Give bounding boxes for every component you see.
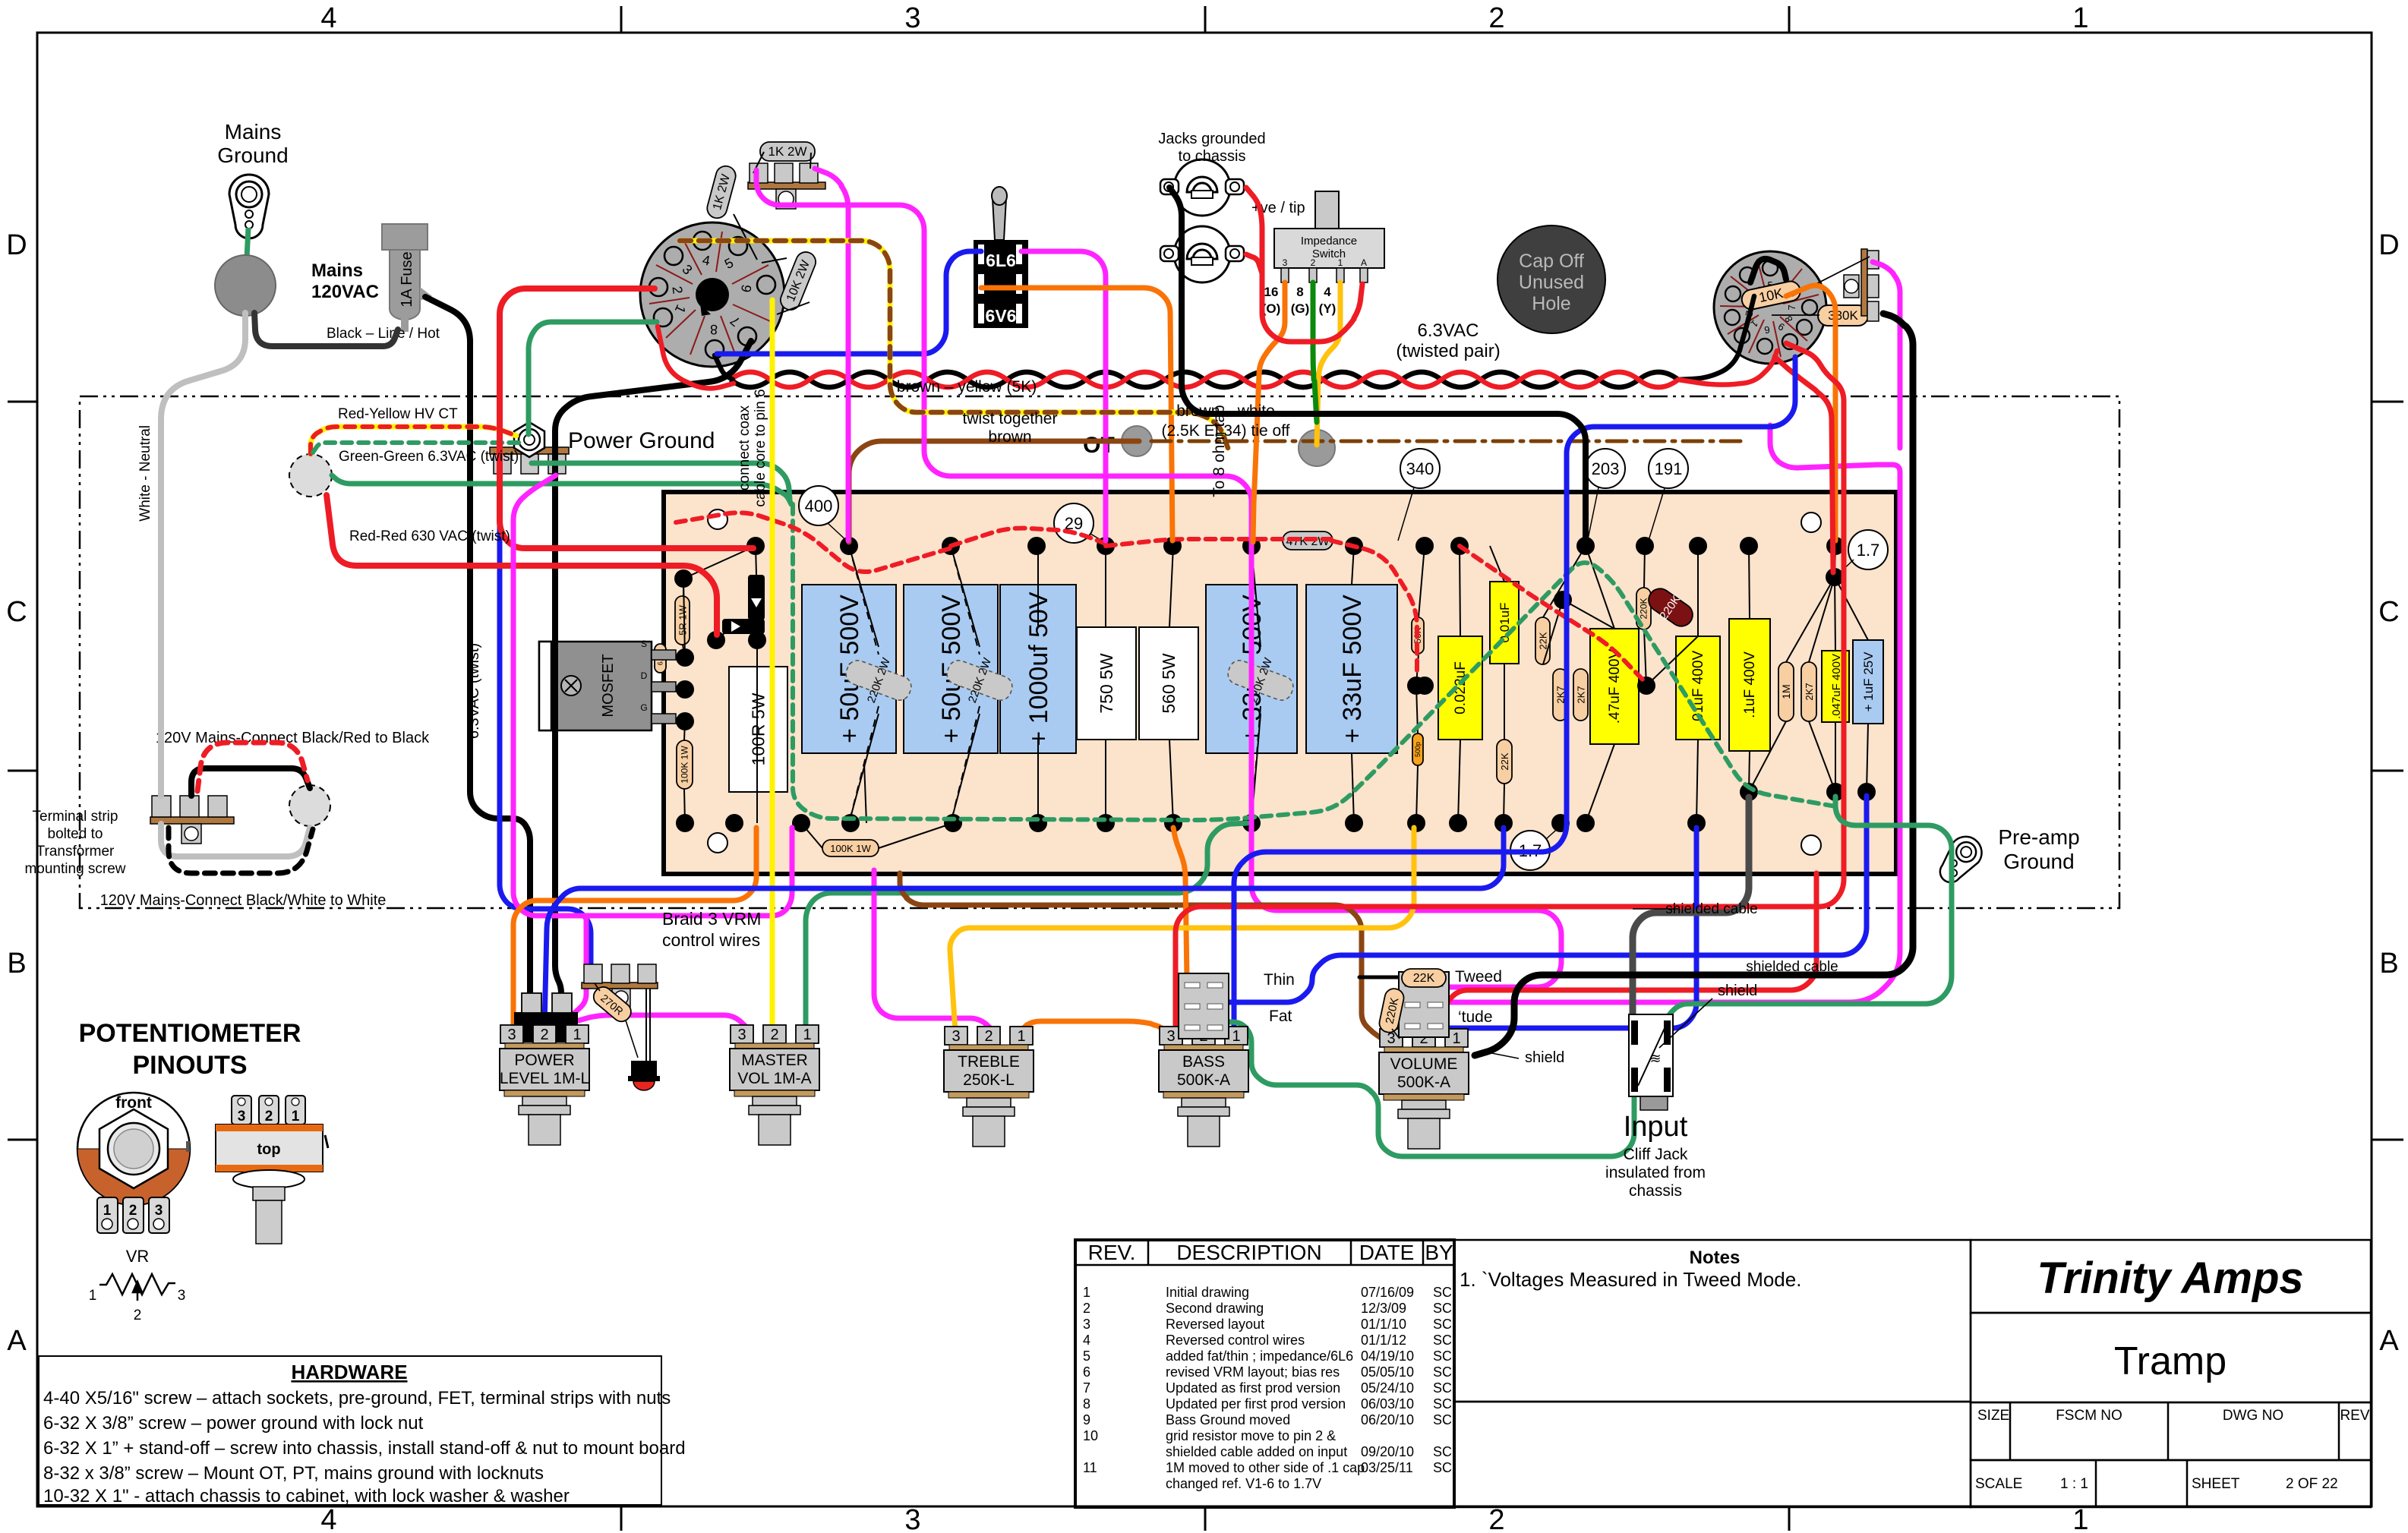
wire: orange treble-bass [1021,1021,1172,1039]
wire: brown OT primary [849,441,1139,542]
wire: orange noval-board [1786,285,1835,541]
svg-text:400: 400 [805,497,833,516]
svg-text:1: 1 [1017,1028,1025,1045]
svg-text:1. `Voltages Measured in Tweed: 1. `Voltages Measured in Tweed Mode. [1460,1268,1801,1291]
wire: orange VRM to PL lug3 [513,828,756,1033]
wire: red HT pin2 [500,289,753,548]
svg-text:Braid 3 VRM: Braid 3 VRM [662,909,761,929]
wire: red to volume tude [1444,873,1816,1019]
svg-text:1: 1 [1232,1028,1240,1045]
noval tube socket V1 12AX7 [1714,251,1826,364]
svg-text:BASS: BASS [1182,1053,1225,1071]
svg-text:100K 1W: 100K 1W [680,746,690,784]
svg-text:MASTER: MASTER [741,1052,808,1069]
svg-text:11: 11 [1083,1460,1097,1475]
svg-text:220K: 220K [1639,598,1649,619]
wire: magenta VRM bus [513,475,792,916]
svg-text:top: top [257,1141,280,1158]
svg-text:bolted to: bolted to [48,826,103,842]
wire: black fuse to power level pot [425,297,530,998]
svg-text:7: 7 [1786,304,1797,310]
svg-text:SC: SC [1433,1380,1452,1396]
svg-text:330K: 330K [1828,308,1858,323]
turrets [674,537,1876,832]
wire: green master to board [806,823,1247,1027]
electrolytic caps (blue) [802,585,1397,753]
component leads [676,546,1868,848]
svg-text:.047uF 400V: .047uF 400V [1830,654,1843,719]
svg-text:.47uF 400V: .47uF 400V [1607,649,1623,724]
svg-text:4: 4 [320,2,336,34]
octal tube socket V2 6L6 [640,222,784,367]
wire: red noval-board dot [1775,357,1833,573]
330K resistor [1818,305,1868,326]
svg-text:PINOUTS: PINOUTS [132,1051,247,1080]
svg-text:shielded cable: shielded cable [1665,901,1757,917]
svg-text:VR: VR [126,1247,150,1266]
wire: magenta to treble lug2 [874,870,994,1039]
svg-text:9: 9 [1083,1412,1090,1427]
svg-text:6-32 X 1” + stand-off – screw: 6-32 X 1” + stand-off – screw into chass… [43,1438,686,1459]
svg-text:1.7: 1.7 [1857,541,1880,560]
svg-text:Terminal strip: Terminal strip [33,809,118,825]
mode toggle switch 6L6/6V6 [974,187,1028,328]
svg-text:Trinity Amps: Trinity Amps [2037,1254,2303,1303]
svg-text:120VAC: 120VAC [311,282,379,302]
turret board [664,492,1896,874]
svg-text:A: A [1361,257,1367,268]
wire: magenta strip loop to volume [756,170,1561,987]
svg-text:250K-L: 250K-L [963,1071,1015,1089]
svg-text:Mains: Mains [311,260,363,281]
svg-text:100K 1W: 100K 1W [830,843,871,854]
svg-text:Hole: Hole [1532,293,1570,314]
svg-text:SC: SC [1433,1285,1452,1300]
svg-text:C: C [6,596,27,628]
svg-text:D: D [6,229,27,261]
input jack [1629,1014,1673,1110]
svg-text:.1uF 400V: .1uF 400V [1742,651,1758,718]
wire: black mains hot to fuse [254,313,398,346]
svg-text:6L6: 6L6 [986,251,1016,270]
svg-text:SC: SC [1433,1348,1452,1364]
svg-text:1M moved to other side of .1 c: 1M moved to other side of .1 cap [1166,1460,1365,1475]
svg-text:grid resistor move to pin 2 &: grid resistor move to pin 2 & [1166,1428,1336,1443]
wire: gold treble-board [950,828,1414,1039]
mains terminal strip [150,796,234,844]
wire: magenta strip-board [815,169,848,541]
svg-text:4: 4 [1324,285,1331,299]
svg-text:Thin: Thin [1264,971,1295,989]
svg-text:Black – Line / Hot: Black – Line / Hot [327,326,440,342]
svg-text:3: 3 [178,1288,186,1304]
pilot LED assembly [582,964,660,1090]
svg-text:A: A [7,1325,27,1357]
svg-text:SHEET: SHEET [2192,1476,2240,1492]
input terminal strip [1844,249,1879,321]
47K 2W gray pill [1283,532,1333,550]
svg-text:3: 3 [737,1027,746,1043]
terminal strip with 1K 2W bias resistors [705,142,825,314]
wire: 6.3VAC twisted pair [731,372,1678,387]
hardware note box [39,1356,661,1505]
svg-text:Transformer: Transformer [36,844,115,860]
svg-text:REV: REV [2340,1408,2369,1424]
svg-text:09/20/10: 09/20/10 [1361,1444,1414,1459]
svg-text:D: D [2378,229,2399,261]
svg-text:chassis: chassis [1629,1182,1682,1200]
potentiometer R-PL [500,1025,589,1145]
svg-text:500K-A: 500K-A [1397,1074,1450,1091]
svg-text:1A Fuse: 1A Fuse [399,251,415,307]
power level pot top tabs + cover [514,1012,578,1043]
svg-text:SC: SC [1433,1396,1452,1412]
svg-text:1M: 1M [1780,684,1792,699]
wire: blue pg to LED strip [500,474,591,969]
svg-text:Updated as first prod version: Updated as first prod version [1166,1380,1340,1396]
wire: black noval jumper [1750,259,1786,282]
svg-text:2K7: 2K7 [1576,686,1587,703]
svg-text:10: 10 [1083,1428,1098,1443]
svg-text:2: 2 [265,1109,273,1125]
svg-text:Ground: Ground [217,144,288,167]
svg-text:22K: 22K [1413,972,1435,985]
svg-text:560 5W: 560 5W [1159,653,1179,714]
volume push-pull switch [1399,972,1449,1037]
svg-text:D: D [641,670,648,681]
svg-text:SIZE: SIZE [1977,1408,2009,1424]
wire: gray mains neutral [161,313,245,796]
pre-amp ground lug [1932,830,1988,890]
svg-text:Cliff Jack: Cliff Jack [1624,1146,1688,1163]
svg-text:SC: SC [1433,1460,1452,1475]
svg-text:REV.: REV. [1088,1241,1136,1264]
svg-text:2: 2 [1488,2,1504,34]
svg-text:6.3VAC: 6.3VAC [1418,320,1479,341]
svg-text:OT: OT [1083,433,1115,458]
wire: magenta to PL lug1 [566,916,586,1040]
svg-text:16: 16 [1264,285,1279,299]
svg-text:2: 2 [770,1027,778,1043]
svg-text:04/19/10: 04/19/10 [1361,1348,1414,1364]
svg-text:to chassis: to chassis [1179,148,1246,165]
svg-text:Unused: Unused [1519,272,1584,293]
svg-text:8-32 x 3/8” screw – Mount OT,: 8-32 x 3/8” screw – Mount OT, PT, mains … [43,1463,544,1484]
svg-text:shield: shield [1718,983,1757,999]
svg-text:+ 33uF 500V: + 33uF 500V [1338,595,1367,743]
potentiometer R-TR [944,1027,1034,1147]
svg-text:Bass Ground moved: Bass Ground moved [1166,1412,1290,1427]
wire: green 8ohm tap [1313,282,1317,422]
svg-text:500p: 500p [1414,742,1422,757]
svg-text:10-32 X 1" - attach chassis t: 10-32 X 1" - attach chassis to cabinet, … [43,1486,570,1506]
svg-text:1: 1 [1338,257,1343,268]
svg-text:DWG NO: DWG NO [2223,1408,2283,1424]
svg-text:shielded cable added on input: shielded cable added on input [1166,1444,1347,1459]
svg-text:front: front [115,1094,152,1112]
svg-text:2: 2 [1311,257,1316,268]
svg-text:8: 8 [710,322,718,337]
wire: black heater ground bus [555,341,751,998]
svg-text:Power Ground: Power Ground [568,428,715,453]
wire: black tweed jumper [1405,977,1434,1001]
svg-text:203: 203 [1592,459,1620,478]
axial resistors (tan pills) [675,596,690,645]
svg-text:B: B [7,948,26,979]
svg-text:SC: SC [1433,1301,1452,1316]
svg-text:To 8 ohm tap: To 8 ohm tap [1210,405,1228,497]
svg-text:5R 1W: 5R 1W [677,604,689,635]
green ground stub [247,228,248,258]
svg-text:Impedance: Impedance [1301,235,1357,248]
wire: green 6.3VAC A [532,463,790,500]
pot front view [77,1093,190,1233]
svg-text:0.01uF: 0.01uF [1498,603,1512,643]
voltage test circles [799,486,838,525]
svg-text:FSCM NO: FSCM NO [2056,1408,2122,1424]
mains ground lug [229,175,269,238]
svg-text:connect coax: connect coax [737,405,753,490]
wire: red dashed mains jumper [197,743,308,791]
svg-text:TREBLE: TREBLE [958,1053,1020,1071]
diodes [722,575,765,634]
svg-text:Reversed control wires: Reversed control wires [1166,1333,1305,1348]
svg-text:BY: BY [1425,1241,1453,1264]
wire: black 22K link [1359,976,1402,979]
svg-text:100R 5W: 100R 5W [749,692,768,765]
wire: black shielded cable 330K-volume [1475,314,1913,1055]
svg-text:brown – yellow (5K): brown – yellow (5K) [897,378,1037,396]
svg-text:Ground: Ground [2003,850,2074,873]
1A fuse F1 [382,224,432,332]
svg-text:Red-Red 630 VAC (twist): Red-Red 630 VAC (twist) [349,528,510,544]
svg-text:1: 1 [1452,1030,1460,1047]
svg-text:POTENTIOMETER: POTENTIOMETER [79,1019,301,1048]
svg-text:5: 5 [1083,1348,1090,1364]
wire: brown to volume lug3 [900,873,1382,1039]
svg-text:G: G [640,702,647,713]
speaker jack J1 [1160,159,1244,216]
svg-text:changed ref. V1-6 to 1.7V: changed ref. V1-6 to 1.7V [1166,1476,1321,1491]
svg-text:POWER: POWER [514,1052,574,1069]
svg-text:+ 1uF 25V: + 1uF 25V [1861,651,1876,712]
svg-text:C: C [2378,596,2399,628]
svg-text:shielded cable: shielded cable [1746,959,1838,975]
svg-text:07/16/09: 07/16/09 [1361,1285,1414,1300]
svg-text:(Y): (Y) [1319,301,1337,316]
wire: black jacks ground to board [1169,188,1586,541]
svg-text:twist together: twist together [963,410,1058,427]
svg-text:Initial drawing: Initial drawing [1166,1285,1249,1300]
svg-text:MOSFET: MOSFET [600,654,617,717]
PT wire exit grommets [289,454,332,497]
svg-text:2: 2 [129,1203,137,1219]
svg-text:revised VRM layout; bias res: revised VRM layout; bias res [1166,1364,1340,1380]
svg-text:3: 3 [238,1109,246,1125]
svg-text:Pre-amp: Pre-amp [1998,825,2079,849]
svg-text:Notes: Notes [1690,1248,1741,1268]
svg-text:1: 1 [803,1027,811,1043]
svg-text:added fat/thin ; impedance/6L6: added fat/thin ; impedance/6L6 [1166,1348,1353,1364]
svg-text:06/20/10: 06/20/10 [1361,1412,1414,1427]
svg-text:4: 4 [1083,1333,1090,1348]
svg-text:05/05/10: 05/05/10 [1361,1364,1414,1380]
svg-text:Input: Input [1624,1111,1688,1143]
svg-text:mounting screw: mounting screw [24,861,125,877]
svg-text:22K: 22K [1538,632,1549,649]
svg-text:3: 3 [1166,1028,1175,1045]
wire: red dashed board route [676,513,951,572]
wire: green preamp ground bus [1668,796,1952,1027]
svg-text:Second drawing: Second drawing [1166,1301,1264,1316]
svg-text:HARDWARE: HARDWARE [291,1361,407,1383]
svg-text:Updated per first prod version: Updated per first prod version [1166,1396,1346,1412]
wire: red dashed X [1460,546,1646,683]
wire: gray mains jumper [161,824,310,856]
svg-text:7: 7 [1083,1380,1090,1396]
wire: gold 4ohm tap [1317,282,1340,445]
wire: orange bass lug jumper [1177,1014,1217,1037]
wire: green heater to pin1 [529,322,657,434]
svg-text:SC: SC [1433,1333,1452,1348]
wire: green 6.3VAC B [332,475,791,504]
svg-text:1: 1 [2072,2,2088,34]
svg-text:SC: SC [1433,1412,1452,1427]
svg-text:6V6: 6V6 [986,306,1017,326]
svg-text:shield: shield [1525,1049,1564,1066]
wire: magenta to master lug3 [579,1015,749,1039]
svg-text:6-32 X 3/8” screw – power gro: 6-32 X 3/8” screw – power ground with lo… [43,1413,424,1434]
svg-text:8: 8 [1083,1396,1090,1412]
svg-text:2K7: 2K7 [1804,683,1815,700]
title block [1075,1240,2371,1507]
svg-text:01/1/12: 01/1/12 [1361,1333,1406,1348]
power resistors (white) [729,627,1198,792]
wire: blue board to volume [1449,828,1696,1028]
svg-text:22K: 22K [1499,752,1510,770]
cap off unused hole [1498,226,1605,333]
svg-text:Tweed: Tweed [1455,968,1502,986]
svg-text:3: 3 [904,2,920,34]
svg-text:SC: SC [1433,1317,1452,1332]
svg-text:1: 1 [573,1027,581,1043]
svg-text:White - Neutral: White - Neutral [137,425,153,522]
wire: red noval-bass lug3 [1176,343,1844,1033]
svg-text:3: 3 [1283,257,1288,268]
MOSFET Q1 [539,639,676,730]
svg-text:VOLUME: VOLUME [1390,1055,1458,1073]
svg-text:A: A [2379,1325,2399,1357]
svg-text:LEVEL 1M-L: LEVEL 1M-L [500,1070,589,1087]
svg-text:B: B [2379,948,2398,979]
svg-text:4-40 X5/16" screw – attach soc: 4-40 X5/16" screw – attach sockets, pre-… [43,1388,671,1408]
10K grid stopper [1740,279,1802,311]
wire: brown-white tie off [1151,440,1747,443]
wire: yellow coax core pin6 [770,300,775,1027]
svg-text:120V Mains-Connect Black/White: 120V Mains-Connect Black/White to White [100,892,387,909]
svg-text:6: 6 [1083,1364,1090,1380]
wire: green dashed 6.3VAC ct [313,443,522,453]
wire: red-yellow HV CT [311,427,516,454]
wire: orange board to bass switch [1173,828,1187,979]
svg-text:Reversed layout: Reversed layout [1166,1317,1264,1332]
svg-text:3: 3 [1083,1317,1090,1332]
wire: red +ve tip [1246,188,1362,342]
wire: green bass fat to input [1218,1022,1634,1156]
wire: magenta noval strip [1873,262,1900,448]
potentiometer R-VO [1379,1029,1469,1149]
wire: blue board to bass thin [1217,796,1867,1002]
bleeder 220K 2W (gray dashed pills) [839,646,918,714]
wire: magenta toggle-board [1021,251,1106,541]
power ground [490,422,569,474]
wire: magenta volume-noval loop [1444,425,1900,1002]
svg-text:750 5W: 750 5W [1097,653,1116,714]
svg-text:6.3VAC (twist): 6.3VAC (twist) [466,643,482,739]
chassis boundary dash-dot [80,396,2119,908]
VR symbol [99,1274,175,1301]
svg-text:340: 340 [1406,459,1434,478]
speaker wire grommet [1299,430,1335,466]
svg-text:DESCRIPTION: DESCRIPTION [1176,1241,1321,1264]
signal caps (yellow) [1438,582,1849,751]
wire: brown-yellow 5K pair [680,241,1228,448]
svg-text:DATE: DATE [1359,1241,1415,1264]
wire: black tude jumper [1419,1004,1440,1019]
svg-text:1: 1 [103,1203,112,1219]
svg-text:SC: SC [1433,1364,1452,1380]
svg-text:S: S [641,639,647,649]
svg-text:Fat: Fat [1269,1008,1292,1025]
svg-text:3: 3 [904,1504,920,1533]
svg-text:2: 2 [540,1027,548,1043]
svg-text:01/1/10: 01/1/10 [1361,1317,1406,1332]
mains 120VAC circle [215,255,276,316]
bass push-pull switch [1179,973,1229,1039]
wire: orange 16ohm tap to board [1253,282,1285,542]
svg-text:(twisted pair): (twisted pair) [1396,341,1500,361]
svg-text:3: 3 [155,1203,163,1219]
svg-text:SCALE: SCALE [1975,1476,2022,1492]
svg-text:03/25/11: 03/25/11 [1361,1460,1413,1475]
svg-text:≋: ≋ [1649,1051,1661,1066]
svg-text:1 : 1: 1 : 1 [2060,1476,2088,1492]
svg-text:Red-Yellow HV CT: Red-Yellow HV CT [338,406,458,422]
wire: blue noval to bass lug1 [1234,357,1795,1031]
svg-text:1: 1 [2072,1504,2088,1533]
svg-text:2: 2 [1488,1504,1504,1533]
svg-text:Green-Green 6.3VAC (twist): Green-Green 6.3VAC (twist) [339,449,519,465]
impedance switch [1262,191,1384,316]
svg-text:control wires: control wires [662,930,760,950]
wire: gray shielded cable to input [1633,797,1749,1014]
svg-text:500K-A: 500K-A [1177,1071,1230,1089]
svg-text:2: 2 [1083,1301,1090,1316]
svg-text:Mains: Mains [225,120,282,144]
svg-text:(G): (G) [1291,301,1310,316]
svg-text:cable core to pin 6: cable core to pin 6 [753,389,768,506]
svg-text:1K 2W: 1K 2W [768,144,806,159]
pot top view [216,1096,328,1244]
wire: green dashed board route [793,504,1835,820]
wire: blue octal-toggle [717,251,981,354]
svg-text:‘tude: ‘tude [1458,1008,1493,1026]
svg-text:06/03/10: 06/03/10 [1361,1396,1414,1412]
svg-text:2: 2 [134,1307,142,1323]
potentiometer R-MV [730,1025,819,1145]
svg-text:Tramp: Tramp [2114,1339,2227,1383]
wire: orange toggle-board [981,288,1172,541]
